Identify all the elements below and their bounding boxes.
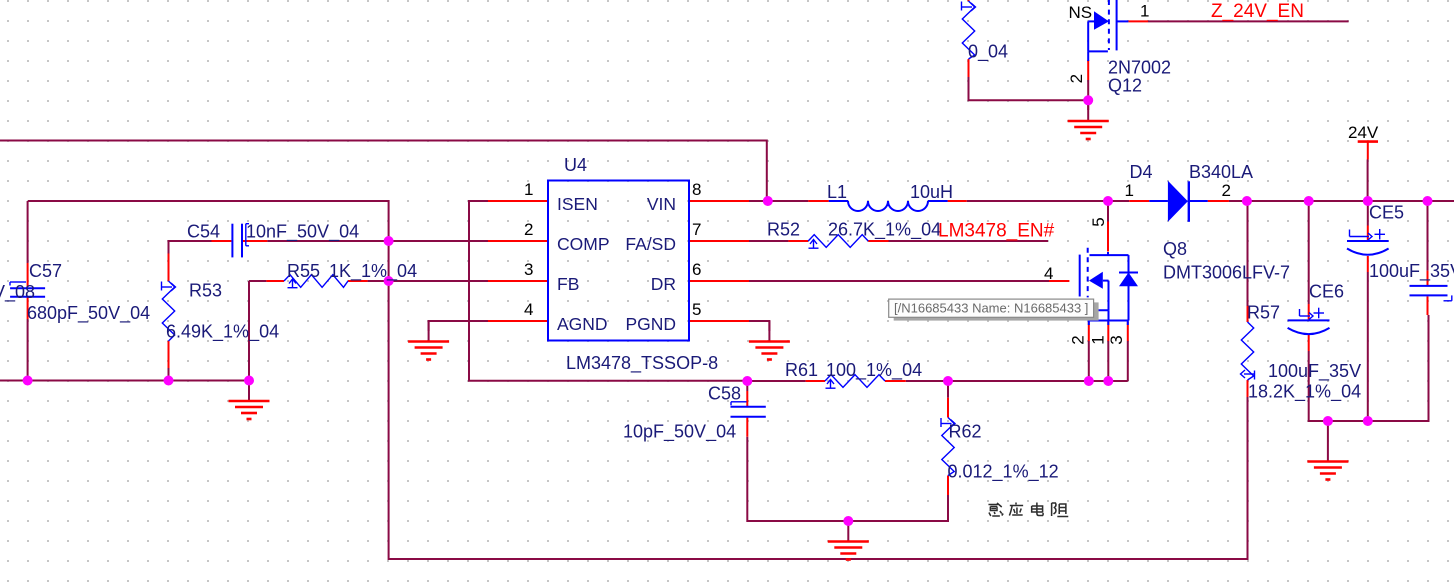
ground G3 (PGND) (749, 342, 790, 360)
svg-text:1: 1 (1125, 181, 1134, 200)
resistor R 0_04 pin1 mark (962, 2, 976, 12)
svg-text:3: 3 (1107, 335, 1126, 344)
svg-text:10nF_50V_04: 10nF_50V_04 (246, 222, 359, 243)
wire C57 bottom (27, 319, 29, 381)
pin R52 right (868, 240, 888, 242)
ground G1 (Q12 source) (1068, 121, 1109, 139)
svg-text:10pF_50V_04: 10pF_50V_04 (623, 422, 736, 443)
wire C54 left (169, 241, 212, 254)
svg-text:V_08: V_08 (0, 282, 35, 303)
svg-text:7: 7 (692, 220, 701, 239)
resistor R57 pin1 mark (1241, 370, 1255, 380)
svg-text:5: 5 (1089, 217, 1108, 226)
svg-text:R62: R62 (949, 422, 982, 442)
svg-text:C54: C54 (187, 222, 220, 242)
wire C54 right to COMP (267, 240, 488, 242)
svg-text:100uF_35V: 100uF_35V (1268, 361, 1361, 382)
capacitor C54 (232, 224, 242, 258)
wire CE6 bottom to gnd wire (1309, 315, 1429, 421)
node CE5 bottom (1363, 416, 1373, 426)
resistor R52 (808, 235, 868, 248)
pin U4.8 (689, 200, 749, 202)
wire Q12 source down (1087, 80, 1089, 110)
node VIN/top-wire (763, 196, 773, 206)
node sense gnd (843, 516, 853, 526)
pin R61 right (885, 380, 906, 382)
node D4 cathode/R57 (1242, 196, 1252, 206)
pin R52 left (788, 240, 808, 242)
wire CE6 vertical top (1308, 201, 1310, 304)
pin D4 anode (1129, 200, 1149, 202)
pin U4.5 (689, 320, 749, 322)
pin C58 bottom (746, 418, 748, 437)
node C58 top (742, 376, 752, 386)
wire D4 cathode to right edge (1229, 200, 1454, 202)
pin U4.7 (689, 240, 749, 242)
svg-text:PGND: PGND (625, 314, 676, 334)
char 感 (988, 503, 1003, 516)
capacitor C57 mark (10, 282, 26, 286)
svg-text:2: 2 (1067, 74, 1086, 83)
svg-text:LM3478_EN#: LM3478_EN# (938, 221, 1055, 242)
pin L1 right (948, 200, 967, 202)
svg-text:D4: D4 (1130, 162, 1153, 182)
svg-text:1: 1 (1140, 2, 1149, 21)
svg-text:2: 2 (524, 220, 533, 239)
svg-text:C58: C58 (708, 384, 741, 404)
inductor L1 (829, 201, 948, 211)
svg-text:COMP: COMP (557, 234, 610, 254)
svg-text:R57: R57 (1247, 303, 1280, 323)
node R55/gnd (244, 376, 254, 386)
pin Q8 gate (1049, 280, 1069, 282)
pin U4.6 (689, 280, 749, 282)
resistor R52 pin1 mark (809, 240, 819, 249)
svg-text:U4: U4 (564, 155, 587, 175)
wire gnd stem G5 (847, 521, 849, 541)
pin R62 top (947, 398, 949, 418)
pin R57 bottom (1247, 380, 1249, 397)
wire Z_24V_EN (1148, 20, 1349, 22)
svg-text:4: 4 (524, 300, 533, 319)
svg-text:6.49K_1%_04: 6.49K_1%_04 (166, 322, 279, 343)
node 24V/CE5 (1363, 196, 1373, 206)
svg-text:VIN: VIN (647, 194, 676, 214)
pin C57 top (27, 263, 29, 287)
wire L1 to D4 (967, 200, 1129, 202)
wire 24V drop (1367, 160, 1369, 202)
svg-text:1K_1%_04: 1K_1%_04 (329, 261, 417, 282)
resistor R55 (284, 275, 348, 288)
pin D4 cathode (1208, 200, 1229, 202)
svg-text:2: 2 (1222, 181, 1231, 200)
wire AGND (429, 321, 488, 331)
wire gnd stem G4 (248, 381, 250, 401)
pin U4.4 (488, 320, 548, 322)
wire gnd stem G6 (1327, 421, 1329, 461)
node L1/D4/Q8 drain (1103, 196, 1113, 206)
svg-text:2: 2 (1069, 335, 1088, 344)
pin right cap bottom (1427, 296, 1429, 315)
node R62 top (943, 376, 953, 386)
svg-text:ISEN: ISEN (557, 194, 598, 214)
svg-text:[/N16685433 Name: N16685433 ]: [/N16685433 Name: N16685433 ] (894, 301, 1088, 316)
resistor R53 pin1 mark (162, 282, 176, 292)
pin Q8 source 2 (1088, 322, 1090, 341)
wire R62 top (947, 381, 949, 398)
pin R55 right (348, 280, 368, 282)
diode D4 (1149, 181, 1207, 222)
svg-text:6: 6 (692, 260, 701, 279)
node Q8 source1 (1103, 376, 1113, 386)
resistor R61 (825, 375, 885, 388)
wire R57 vertical (1247, 201, 1249, 306)
pin Q12 drain (1128, 20, 1148, 22)
pin R_0_04 top (968, 0, 970, 1)
wire Q8 drain up (1107, 201, 1109, 222)
pin R_0_04 bottom (968, 59, 970, 77)
wire CE5 bottom (1367, 272, 1369, 421)
node COMP/C54 (384, 236, 394, 246)
char 阻 (1052, 503, 1069, 517)
capacitor C57 (10, 288, 45, 296)
resistor R57 (1241, 322, 1253, 380)
svg-text:2N7002: 2N7002 (1108, 58, 1171, 78)
ground G2 (AGND) (408, 342, 449, 360)
pin R55 left (266, 280, 284, 282)
node right cap top (1423, 196, 1433, 206)
wire right cap top (1427, 201, 1429, 271)
wire gnd stem G1 (1087, 100, 1089, 120)
resistor R61 pin1 mark (826, 380, 836, 389)
svg-text:1: 1 (524, 180, 533, 199)
ground G4 (bottom-left) (229, 401, 270, 419)
pin CE5 top (1367, 226, 1369, 241)
tooltip box (889, 299, 1099, 321)
ground G5 (sense gnd) (828, 542, 869, 560)
pin CE5 bottom (1367, 256, 1369, 272)
node gnd G6 (1323, 416, 1333, 426)
resistor R55 pin1 mark (288, 279, 298, 288)
op-amp U4 box (548, 181, 689, 341)
pin Q8 drain (1107, 222, 1109, 252)
node Q12 source/gnd (1083, 95, 1093, 105)
node FB/R55 (384, 276, 394, 286)
transistor Q8 body diode (1119, 255, 1138, 320)
pin U4.2 (488, 240, 548, 242)
resistor R62 pin1 mark (941, 418, 955, 428)
char 应 (1009, 503, 1023, 516)
wire C58 bottom to gnd run (747, 437, 948, 521)
svg-text:DR: DR (651, 274, 676, 294)
svg-text:R55: R55 (287, 261, 320, 281)
power 24V bar (1358, 142, 1378, 160)
node C57 bottom (23, 376, 33, 386)
pin Q8 source 1 (1107, 322, 1109, 341)
wire C57 branch (27, 201, 29, 263)
pin U4.3 (488, 280, 548, 282)
capacitor CE6 plus and mark (1300, 308, 1325, 320)
svg-text:100uF_35V: 100uF_35V (1369, 261, 1454, 282)
wire Q12 resistor to source (969, 77, 1089, 100)
svg-text:1: 1 (1089, 335, 1108, 344)
wire R61 right to Q8 sources (906, 380, 1128, 382)
wire CE5 top (1367, 201, 1369, 226)
svg-text:18.2K_1%_04: 18.2K_1%_04 (1248, 382, 1361, 403)
pin L1 left (808, 200, 829, 202)
capacitor C58 (731, 407, 766, 417)
capacitor CE5 (1347, 241, 1389, 255)
svg-text:26.7K_1%_04: 26.7K_1%_04 (828, 220, 941, 241)
wire top horizontal net (0, 141, 767, 202)
svg-text:C57: C57 (29, 261, 62, 281)
svg-text:AGND: AGND (557, 314, 608, 334)
svg-text:24V: 24V (1348, 123, 1379, 142)
pin C57 bottom (27, 298, 29, 320)
wire R61 segment left (747, 380, 805, 382)
svg-text:R53: R53 (189, 281, 222, 301)
svg-text:R61: R61 (785, 360, 818, 380)
pin Q8 source 3 (1127, 322, 1129, 341)
svg-text:10uH: 10uH (910, 182, 953, 202)
wire C58 top (746, 381, 748, 391)
pin right cap top (1427, 271, 1429, 285)
transistor Q8 (1080, 248, 1129, 325)
node CE6 top (1304, 196, 1314, 206)
svg-text:0_04: 0_04 (968, 42, 1008, 63)
wire gnd stem G3 (768, 321, 770, 341)
svg-text:LM3478_TSSOP-8: LM3478_TSSOP-8 (566, 353, 718, 374)
wire R52 to net label end (889, 240, 1049, 242)
pin Q12 source (1087, 60, 1089, 80)
capacitor C58 mark (731, 402, 747, 406)
capacitor right mark (1444, 295, 1452, 300)
wire R55 left drop (248, 281, 250, 381)
capacitor C54 mark (246, 224, 249, 246)
resistor R62 (942, 418, 954, 476)
pin R61 left (806, 380, 825, 382)
svg-text:FA/SD: FA/SD (625, 234, 676, 254)
svg-text:Q8: Q8 (1163, 239, 1187, 259)
ground G6 (CE6/CE5 gnd) (1307, 462, 1348, 480)
pin CE6 top (1308, 304, 1310, 319)
wire FA/SD to R52 (749, 240, 788, 242)
capacitor CE6 (1288, 320, 1330, 334)
transistor Q12 (1088, 0, 1128, 61)
node Q8 source2 (1084, 376, 1094, 386)
svg-text:Z_24V_EN: Z_24V_EN (1211, 1, 1304, 22)
node R53 bottom (164, 376, 174, 386)
wire DR to Q8 gate (749, 280, 1049, 282)
svg-text:DMT3006LFV-7: DMT3006LFV-7 (1163, 263, 1290, 283)
capacitor right unnamed (1410, 286, 1448, 296)
svg-text:CE6: CE6 (1309, 282, 1344, 302)
svg-text:680pF_50V_04: 680pF_50V_04 (27, 303, 150, 324)
svg-text:R52: R52 (767, 220, 800, 240)
svg-text:8: 8 (692, 180, 701, 199)
wire bottom-left gnd net (0, 380, 249, 382)
pin C54 right (243, 240, 267, 242)
wire R55 leads (249, 280, 266, 282)
wire PGND (749, 321, 769, 331)
svg-text:B340LA: B340LA (1189, 162, 1253, 182)
svg-text:5: 5 (692, 300, 701, 319)
resistor R53 (162, 281, 174, 341)
svg-text:L1: L1 (827, 182, 847, 202)
svg-text:0.012_1%_12: 0.012_1%_12 (948, 462, 1059, 483)
capacitor CE5 plus and mark (1350, 229, 1386, 240)
svg-text:NS: NS (1069, 3, 1093, 22)
pin R57 top (1247, 306, 1249, 322)
svg-text:CE5: CE5 (1369, 203, 1404, 223)
pin CE6 bottom (1308, 335, 1310, 351)
svg-text:100_1%_04: 100_1%_04 (826, 360, 922, 381)
svg-text:3: 3 (524, 260, 533, 279)
char 电 (1032, 503, 1043, 516)
resistor R 0_04 (962, 1, 974, 59)
wire R53 bottom (168, 368, 170, 381)
wire FB net top horizontal (28, 201, 1248, 559)
pin U4.1 (488, 200, 548, 202)
pin C54 left (212, 240, 232, 242)
svg-text:FB: FB (557, 274, 579, 294)
pin R53 bottom (168, 341, 170, 368)
wire ISEN to bottom (469, 201, 747, 381)
wire VIN to L1 (749, 200, 808, 202)
svg-text:Q12: Q12 (1108, 76, 1142, 96)
pin R62 bottom (947, 476, 949, 496)
text 感应电阻 (drawn strokes) (988, 503, 1068, 517)
wire Q8 source pins down (1088, 341, 1090, 381)
pin R53 top (168, 254, 170, 282)
svg-text:4: 4 (1044, 264, 1053, 283)
pin C58 top (746, 391, 748, 406)
wire gnd stem G2 (428, 321, 430, 341)
